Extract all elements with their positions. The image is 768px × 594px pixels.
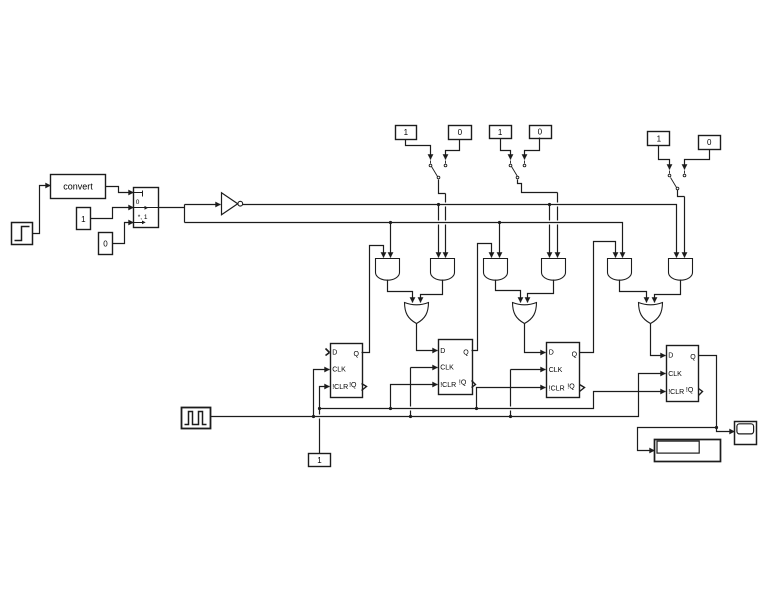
svg-text:CLK: CLK — [440, 365, 454, 372]
AND gate A5 — [608, 259, 632, 281]
constant 1 (SW2) — [490, 126, 512, 139]
node: tap on direct bus for A3 — [498, 221, 501, 224]
svg-text:Q: Q — [690, 354, 696, 361]
svg-text:*, 1: *, 1 — [138, 214, 148, 221]
wire: A6 out to O3 in2 — [655, 280, 681, 303]
wire: inverted bus (NOT output, y=204) — [243, 205, 677, 258]
svg-text:1: 1 — [657, 134, 662, 143]
node: tap on direct bus for A1 — [389, 221, 392, 224]
AND gate A2 — [431, 259, 455, 281]
manual switch SW1 — [429, 164, 447, 179]
wire: direct bus (y=222.5) — [185, 223, 623, 258]
manual switch SW2 — [509, 164, 526, 179]
wire: constant 0 to switch SW2 — [525, 138, 540, 164]
constant 1 (left) — [77, 208, 91, 230]
data type convert block U1 — [51, 175, 106, 199]
svg-text:1: 1 — [404, 128, 409, 137]
node: clear tap FF3 — [475, 407, 478, 410]
manual switch SW3 — [668, 174, 686, 190]
D flip-flop FF2 — [439, 340, 476, 395]
wire: constant 1 to switch SW2 — [501, 139, 511, 164]
constant 0 (left) — [99, 233, 113, 255]
wire: constant 0 to switch in3 — [113, 223, 134, 244]
switch block (threshold selector) — [134, 188, 160, 228]
node: tap on inverted bus for A4 — [548, 203, 551, 206]
wire: tap to display — [638, 428, 717, 451]
wire: clock to FF3 CLK — [511, 370, 546, 417]
constant 0 (SW3) — [699, 136, 721, 150]
svg-text:0: 0 — [707, 138, 712, 147]
svg-text:CLK: CLK — [332, 367, 346, 374]
node: clock tap FF1 — [312, 415, 315, 418]
wire: A3 out to O2 in1 — [496, 280, 521, 303]
constant 0 (SW2) — [530, 126, 552, 139]
svg-text:!Q: !Q — [349, 382, 357, 389]
inverter (NOT gate) U2 — [222, 193, 243, 215]
svg-text:D: D — [668, 352, 673, 359]
svg-text:0: 0 — [136, 199, 140, 206]
svg-text:Q: Q — [463, 350, 469, 357]
AND gate A6 — [669, 259, 693, 281]
AND gate A4 — [542, 259, 566, 281]
svg-text:!CLR: !CLR — [332, 384, 348, 391]
wire: FF3 Q to A5 in1 — [580, 242, 616, 353]
AND gate A1 — [376, 259, 400, 281]
display block — [655, 440, 721, 462]
wire: FF2 Q to A3 in1 — [472, 244, 492, 351]
wire: A5 out to O3 in1 — [620, 280, 647, 303]
FF1 unconnected D input marker — [326, 349, 330, 356]
svg-text:!CLR: !CLR — [668, 389, 684, 396]
svg-text:D: D — [549, 350, 554, 357]
constant 1 (SW1) — [396, 126, 417, 140]
wire: clear to FF1 !CLR — [320, 387, 330, 409]
wire: A1 out to O1 in1 — [388, 280, 413, 303]
scope block — [735, 422, 757, 445]
wire: constant 1 to switch SW3 — [659, 146, 670, 174]
svg-text:!CLR: !CLR — [440, 382, 456, 389]
wire: constant 1 to switch SW1 — [406, 140, 431, 164]
wire: tap to AND A1 in2 — [390, 223, 392, 258]
wire: O1 out to FF2 D — [417, 324, 438, 351]
svg-text:D: D — [440, 348, 445, 355]
svg-text:1: 1 — [317, 456, 322, 465]
wire: A2 out to O1 in2 — [421, 280, 443, 303]
node: output tap — [715, 426, 718, 429]
wire: A4 out to O2 in2 — [528, 280, 554, 303]
wire: manual switch SW3 output — [678, 190, 685, 258]
D flip-flop FF4 — [667, 346, 703, 402]
wire: step to convert — [33, 186, 51, 234]
svg-text:1: 1 — [498, 128, 503, 137]
wire: clear bus to FF4 !CLR — [320, 392, 666, 409]
svg-text:Q: Q — [353, 351, 359, 358]
svg-text:1: 1 — [81, 215, 86, 224]
svg-text:CLK: CLK — [549, 367, 563, 374]
D flip-flop FF1 — [331, 344, 367, 398]
svg-text:!Q: !Q — [686, 387, 694, 394]
wire: constant 1 to switch in2 — [91, 208, 134, 219]
svg-text:CLK: CLK — [668, 371, 682, 378]
node: clear junction — [318, 407, 321, 410]
step source block — [12, 223, 33, 245]
wire: clock bus — [211, 374, 666, 417]
svg-text:0: 0 — [103, 240, 108, 249]
OR gate O1 — [405, 303, 429, 324]
svg-text:!Q: !Q — [567, 383, 575, 390]
svg-text:0: 0 — [538, 128, 543, 137]
wire: tap to AND A4 in1 — [549, 205, 551, 258]
wire: FF4 Q to scope — [699, 356, 735, 432]
wire: clear to FF2 !CLR — [391, 385, 438, 409]
constant 1 (clear) — [309, 454, 331, 467]
wire: tap to AND A2 in1 — [438, 205, 440, 258]
svg-text:convert: convert — [63, 182, 93, 192]
OR gate O2 — [513, 303, 537, 324]
svg-text:Q: Q — [572, 351, 578, 358]
node: clock tap FF3 — [509, 415, 512, 418]
wire: O3 out to FF4 D — [651, 324, 666, 356]
svg-text:!Q: !Q — [459, 380, 467, 387]
pulse generator block — [182, 408, 211, 429]
constant 0 (SW1) — [449, 126, 472, 140]
wire: junction to inverter input — [185, 204, 221, 206]
wire: FF1 Q to A1 in1 — [362, 246, 384, 353]
wire: manual switch SW1 output — [439, 180, 446, 258]
wire: O2 out to FF3 D — [525, 324, 546, 353]
node: tap on inverted bus for A2 — [437, 203, 440, 206]
wire: manual switch SW2 output — [518, 180, 558, 258]
node: clear tap FF2 — [389, 407, 392, 410]
wire: clear to FF3 !CLR — [477, 388, 546, 409]
constant 1 (SW3) — [648, 132, 670, 146]
wire: constant 0 to switch SW3 — [685, 150, 710, 174]
OR gate O3 — [639, 303, 663, 324]
node: clock tap FF2 — [409, 415, 412, 418]
wire: clock to FF1 CLK — [314, 370, 330, 417]
wire: clock to FF2 CLK — [411, 368, 438, 417]
svg-text:0: 0 — [458, 128, 463, 137]
wire: tap to AND A3 in2 — [499, 223, 501, 258]
wire: clear constant riser — [319, 409, 321, 454]
wire: convert to switch in1 — [106, 187, 134, 193]
D flip-flop FF3 — [547, 343, 585, 398]
wire: switch output junction — [160, 205, 185, 223]
svg-text:D: D — [332, 349, 337, 356]
svg-text:!CLR: !CLR — [549, 385, 565, 392]
AND gate A3 — [484, 259, 508, 281]
wire: constant 0 to switch SW1 — [446, 140, 460, 164]
